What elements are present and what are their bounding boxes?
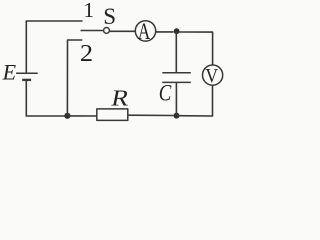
svg-text:1: 1 <box>83 0 94 22</box>
wire: battery - down to bottom-left corner, right to junction <box>26 81 64 116</box>
label E (battery) <box>2 59 17 84</box>
battery E <box>16 73 38 80</box>
wire: top junction to ammeter right terminal <box>156 31 174 33</box>
switch S pivot <box>104 28 110 34</box>
wire: top junction down to capacitor top plate <box>175 32 177 73</box>
svg-text:E: E <box>2 59 17 84</box>
svg-text:V: V <box>205 65 218 88</box>
label C (capacitor) <box>159 80 172 107</box>
svg-text:S: S <box>103 4 116 29</box>
wire: voltmeter top to top-right corner, left to junction <box>179 32 212 65</box>
wire: resistor R right terminal to capacitor junction <box>128 114 174 116</box>
svg-text:C: C <box>159 80 172 107</box>
wire: junction to resistor R left terminal <box>67 115 96 117</box>
ammeter A <box>135 21 155 41</box>
label V (voltmeter) <box>205 65 218 88</box>
label S (switch) <box>103 4 116 29</box>
resistor R <box>97 109 128 121</box>
label 1 (switch contact 1) <box>83 0 94 22</box>
switch contact 2 stub and wire down to bottom junction <box>67 40 82 116</box>
wire: ammeter left terminal to switch pivot <box>110 30 136 32</box>
wire: capacitor bottom plate down to bottom junction <box>175 83 177 116</box>
label R (resistor) <box>109 86 132 111</box>
label 2 (switch contact 2) <box>80 41 93 67</box>
switch S lever (open, horizontal between contacts 1 and 2) <box>81 30 104 32</box>
svg-text:A: A <box>138 20 151 45</box>
label A (ammeter) <box>138 20 151 45</box>
svg-text:2: 2 <box>80 41 93 67</box>
node: junction of switch branch with bottom wire <box>64 113 70 119</box>
node: junction of capacitor branch with top wire <box>174 28 180 34</box>
capacitor C <box>162 73 191 83</box>
wire: switch contact 1 to top-left corner, down to battery + <box>26 21 82 73</box>
wire: junction to bottom-right corner, up to voltmeter <box>177 86 213 116</box>
node: junction of capacitor branch with bottom wire <box>174 113 180 119</box>
voltmeter V <box>203 65 223 85</box>
